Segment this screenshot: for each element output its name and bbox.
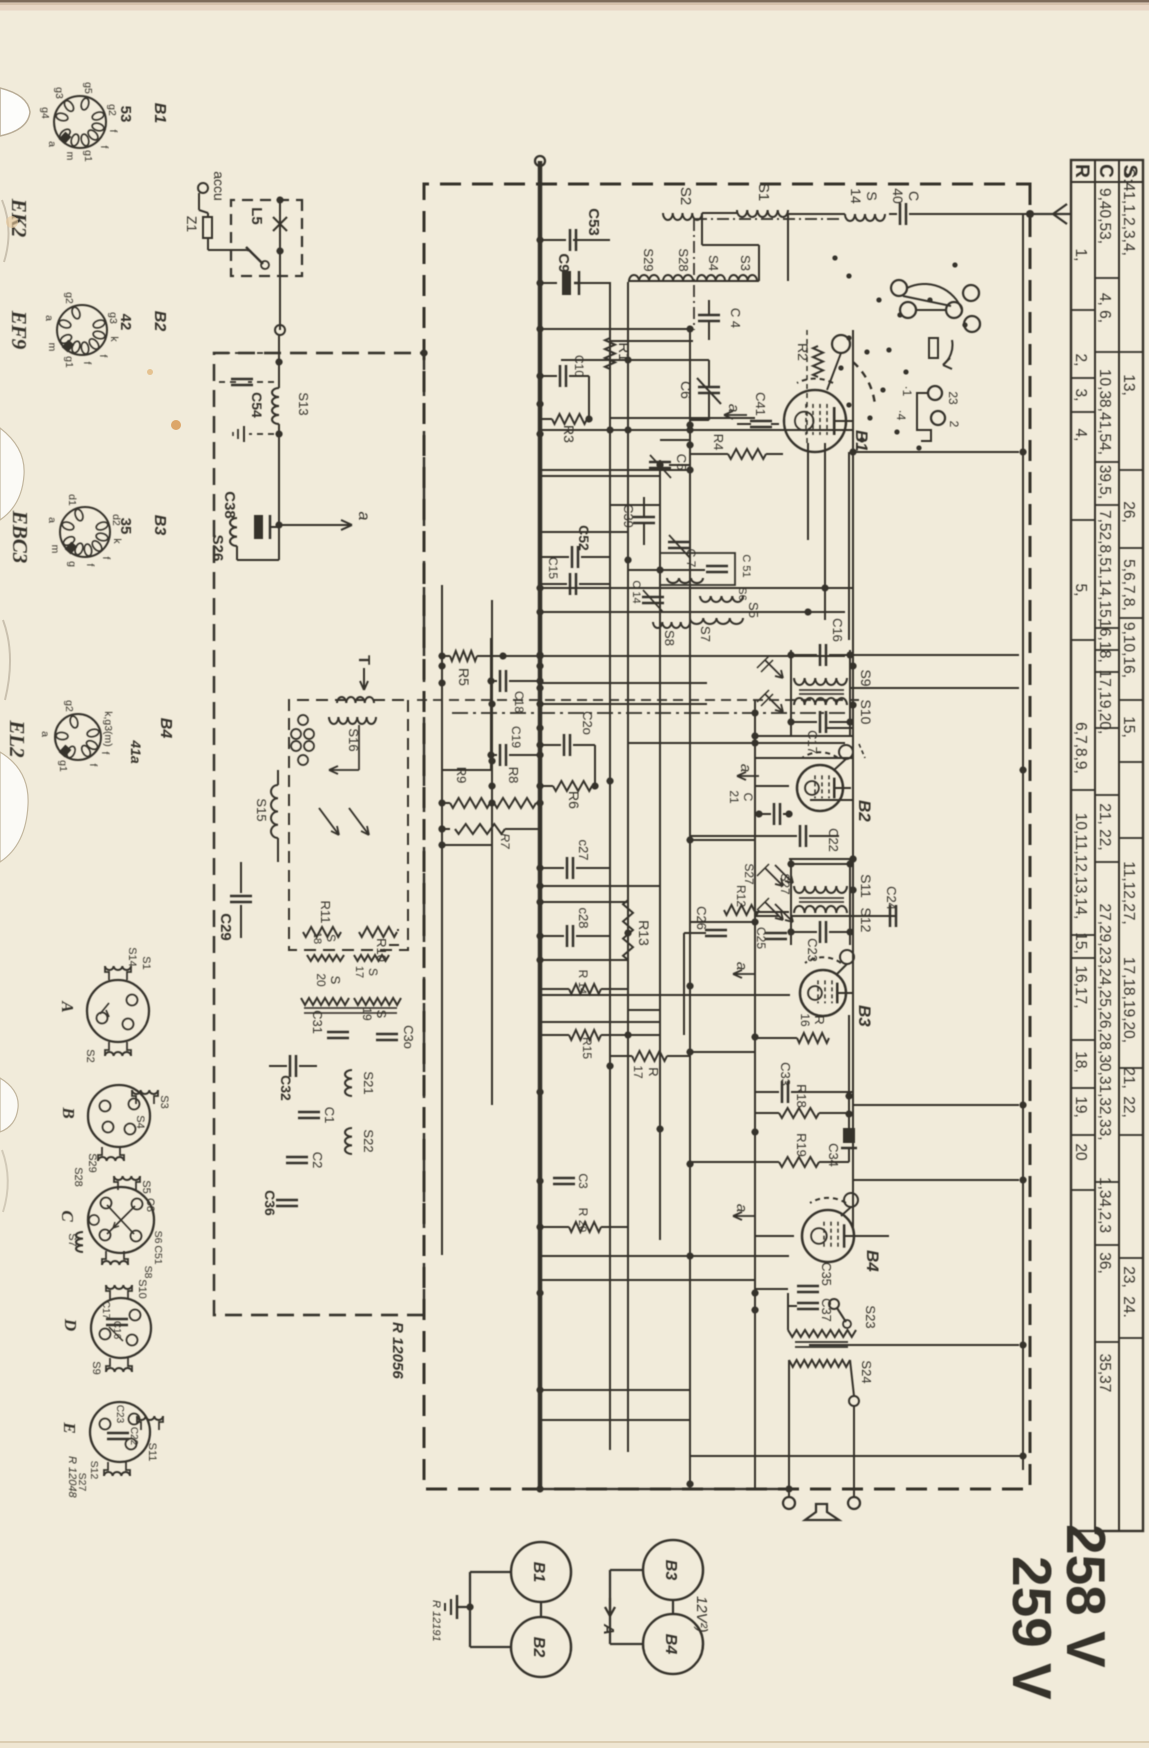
resistor R7 xyxy=(442,828,450,830)
wire net22 xyxy=(690,1051,755,1053)
wire net6 xyxy=(660,439,690,441)
wire net5 xyxy=(540,429,853,431)
oscillator dashed sub-box xyxy=(289,700,408,950)
capacitor C3 xyxy=(553,1177,575,1180)
capacitor C25 xyxy=(765,932,787,935)
capacitor C7 xyxy=(668,541,690,544)
coil S28 xyxy=(663,275,693,281)
wire v16 xyxy=(809,1091,853,1093)
capacitor C2 xyxy=(286,1156,308,1159)
antenna xyxy=(1030,204,1071,224)
wire net3 xyxy=(561,359,628,361)
coil S8 xyxy=(653,622,690,628)
rail anode b1 xyxy=(689,330,691,1484)
wire net19 xyxy=(540,901,628,903)
IFT1 core xyxy=(799,689,844,691)
paper tear left 3 xyxy=(0,752,28,862)
wire net1 xyxy=(540,328,690,330)
capacitor C53 xyxy=(540,239,566,241)
avc dash line xyxy=(449,712,845,714)
coil-unit dashed border xyxy=(214,353,424,1315)
output transformer S23 xyxy=(788,1330,856,1337)
capacitor C10 xyxy=(540,375,557,377)
capacitor C41 xyxy=(750,420,772,423)
wire v7 xyxy=(808,611,825,613)
antenna feed wire xyxy=(909,213,1030,215)
page curl mark 1 xyxy=(2,200,9,262)
bandswitch contact c xyxy=(946,302,962,318)
wire S14 to S1 xyxy=(788,213,845,215)
capacitor C26 xyxy=(705,929,727,932)
rail grid2 xyxy=(627,282,629,1452)
resistor R4 xyxy=(728,449,766,459)
coil S14 xyxy=(845,214,885,221)
coil S16 xyxy=(329,717,376,724)
coil S21 xyxy=(345,1070,352,1096)
grid cap B2 xyxy=(839,745,853,759)
coil S7 xyxy=(690,618,743,624)
osc wires xyxy=(289,769,359,771)
resistor R8 R9 xyxy=(536,802,540,804)
wire net26 xyxy=(690,1455,1023,1457)
stain speck 3 xyxy=(6,216,18,228)
IFT2 bottom rail xyxy=(790,858,792,945)
socket E xyxy=(90,1402,150,1462)
lamp switch xyxy=(246,247,263,264)
resistor R20 xyxy=(569,1222,601,1232)
capacitor C27 xyxy=(540,867,564,869)
page top edge line xyxy=(0,0,1149,3)
wire v17 xyxy=(853,1104,1019,1106)
wire v8 xyxy=(849,654,1019,656)
capacitor C35 xyxy=(797,1285,819,1288)
output transformer S24 xyxy=(789,1360,850,1367)
capacitor C22 xyxy=(809,835,839,837)
capacitor C20 xyxy=(540,744,561,746)
wire net4 xyxy=(610,417,755,419)
bandswitch arm 1 xyxy=(907,284,962,310)
page curl mark 3 xyxy=(2,1150,8,1212)
heater arrow A xyxy=(605,1598,615,1616)
ground symbol heater xyxy=(457,1606,470,1608)
heater bracket B1B2 xyxy=(470,1571,511,1573)
speaker terminal bottom xyxy=(783,1497,795,1509)
tube base EF9 xyxy=(57,305,107,355)
osc contacts xyxy=(304,729,314,739)
junction dots on rails xyxy=(438,662,445,669)
tube B2 xyxy=(797,765,843,811)
capacitor C37 xyxy=(797,1302,819,1305)
box C51 S6 xyxy=(660,553,735,585)
wire S24 bottom lead xyxy=(788,1360,790,1496)
coil S3 xyxy=(729,275,757,281)
heater B1B2 link xyxy=(540,1602,542,1617)
IFT1 tune arrows xyxy=(765,660,783,678)
coil S13 xyxy=(278,335,280,388)
heater B3B4 link xyxy=(672,1600,674,1614)
wire S24 top lead xyxy=(850,1360,854,1396)
wire net29 xyxy=(540,994,790,996)
wire v25 xyxy=(442,844,492,846)
capacitor C40 xyxy=(905,203,908,225)
coil S11 xyxy=(794,886,847,893)
wire net27 xyxy=(755,735,853,737)
resistor R2 xyxy=(813,346,823,377)
shield dash line xyxy=(411,699,859,701)
switch contact 23 xyxy=(928,386,942,400)
chassis bus wire xyxy=(538,161,543,1489)
main chassis dashed border xyxy=(424,184,1030,1489)
capacitor C28 xyxy=(540,935,564,937)
trimmer C6 xyxy=(698,386,720,389)
table column dividers xyxy=(1119,351,1143,353)
paper tear left 1 xyxy=(0,88,30,136)
wire v4 xyxy=(669,464,690,466)
capacitor C15 xyxy=(540,583,567,585)
junction dots on bus xyxy=(536,236,543,243)
wire net14 xyxy=(540,682,707,684)
rail grid caps xyxy=(852,330,854,1230)
heater tube B3 circle xyxy=(643,1540,703,1600)
wire net20 xyxy=(540,959,628,961)
resistor R15 xyxy=(569,1030,601,1040)
bandswitch dashed arc xyxy=(853,362,875,405)
wire v26 xyxy=(540,1488,789,1490)
wire v23 xyxy=(809,1344,1019,1346)
wire net15 xyxy=(540,703,707,705)
bandswitch contact a xyxy=(891,280,907,296)
socket B xyxy=(88,1085,150,1147)
coil S9 xyxy=(794,678,847,685)
osc arm 1 xyxy=(329,766,359,774)
tube base EL2 xyxy=(55,714,101,760)
coil S6 xyxy=(667,578,703,583)
socket D xyxy=(91,1298,151,1358)
wire net28 xyxy=(690,839,755,841)
switch S23 contact xyxy=(829,1299,839,1309)
bandswitch contact e xyxy=(964,316,980,332)
coil S5 xyxy=(700,596,743,602)
speaker terminal top xyxy=(848,1497,860,1509)
tube B4 xyxy=(802,1210,854,1262)
wire net16 xyxy=(628,742,845,744)
tube B3 xyxy=(800,970,846,1016)
tube base EK2 xyxy=(54,96,106,148)
sawtooth S18 xyxy=(307,955,344,961)
bandswitch rotor xyxy=(929,338,938,358)
coil S26 xyxy=(230,518,237,546)
rail avc xyxy=(491,600,493,1105)
rail b2 xyxy=(659,460,661,1240)
wire v3 xyxy=(610,429,690,431)
IFT2 top rail xyxy=(849,858,851,945)
wire v10 xyxy=(825,727,853,729)
capacitor C17 xyxy=(829,721,850,723)
bandswitch arm 2 xyxy=(903,296,951,306)
wire v11 xyxy=(755,785,789,787)
wire net10 xyxy=(540,531,628,533)
coil S1 xyxy=(737,210,788,217)
wire net25 xyxy=(540,1419,690,1421)
resistor R19 xyxy=(819,1161,849,1163)
wire v19 xyxy=(853,1179,1019,1181)
coil S15 xyxy=(271,785,278,838)
capacitor C14 xyxy=(642,596,664,599)
grid cap B4 xyxy=(844,1193,858,1207)
wire v24 xyxy=(442,769,492,771)
wire net33 xyxy=(755,911,789,913)
coil S22 xyxy=(345,1128,352,1154)
stain speck 1 xyxy=(171,420,181,430)
heater tube B1 circle xyxy=(511,1542,571,1602)
L5 lamp dashed box xyxy=(231,200,302,276)
coil S12 xyxy=(794,906,847,913)
rail g-return xyxy=(441,585,443,1255)
pink top tint xyxy=(0,3,1149,11)
wire net24 xyxy=(540,1389,690,1391)
capacitor C24 xyxy=(755,915,779,917)
resistor R11 xyxy=(303,927,341,937)
capacitor C38 xyxy=(254,515,263,539)
wire net30 xyxy=(540,1021,660,1023)
resistor R5 xyxy=(477,655,845,657)
resistor R17 xyxy=(632,1051,667,1061)
capacitor C23 xyxy=(829,931,850,933)
paper tear left 2 xyxy=(0,428,24,520)
resistor R13 xyxy=(623,900,633,960)
socket C xyxy=(88,1187,154,1253)
wire net9 xyxy=(610,504,660,506)
capacitor C4 xyxy=(698,314,720,317)
rail screen xyxy=(609,282,611,1450)
resistor R6 xyxy=(540,785,553,787)
coil S29 xyxy=(629,275,659,281)
capacitor C31 xyxy=(327,1031,349,1034)
rail ht top xyxy=(1022,215,1024,1470)
capacitor C9 xyxy=(540,282,557,284)
wire v1 xyxy=(573,239,610,241)
wire L5 feed xyxy=(279,198,281,330)
capacitor C34 xyxy=(843,1128,855,1143)
tube B1 xyxy=(784,390,846,452)
speaker xyxy=(805,1504,839,1520)
wire v2 xyxy=(628,359,690,361)
wire net7 xyxy=(540,469,690,471)
resistor R16 xyxy=(797,1033,829,1043)
capacitor C33 xyxy=(755,1091,779,1093)
IFT1 bottom rail xyxy=(790,650,792,737)
sawtooth S17 xyxy=(354,955,389,961)
wire net35 xyxy=(862,1235,889,1237)
capacitor C16 xyxy=(829,654,850,656)
wire top coils xyxy=(787,213,789,281)
coil S2 xyxy=(663,213,702,220)
fuse Z1 xyxy=(203,217,212,238)
stain speck 2 xyxy=(147,369,153,375)
sawtooth S19 xyxy=(354,998,401,1005)
wire net31 xyxy=(540,1279,755,1281)
IFT2 core xyxy=(799,897,844,899)
capacitor C29 xyxy=(240,862,242,893)
capacitor C51 xyxy=(706,565,728,568)
resistor R18 xyxy=(819,1112,849,1114)
wire v9 xyxy=(849,687,1019,689)
tube base EBC3 xyxy=(60,507,110,557)
IFT1 top rail xyxy=(849,650,851,737)
wire net34 xyxy=(755,1288,788,1290)
switch bracket xyxy=(917,393,931,441)
capacitor C39 xyxy=(633,516,655,519)
wire net18 xyxy=(789,858,853,860)
wire v13 xyxy=(540,885,660,887)
switch position dots xyxy=(832,255,837,260)
capacitor C54 xyxy=(214,352,274,354)
wire v20 xyxy=(755,1235,794,1237)
wire sec chain xyxy=(628,280,759,282)
wire v14 xyxy=(690,921,755,923)
IFT2 left wire xyxy=(791,863,850,865)
wire net13 xyxy=(540,611,845,613)
bandswitch wire f xyxy=(916,309,946,311)
capacitor C32 xyxy=(299,1065,317,1067)
wire c18 c19 bar xyxy=(490,638,492,770)
wire net17 xyxy=(810,799,853,801)
heater bracket B3B4 xyxy=(610,1569,643,1571)
grid cap B3 xyxy=(840,950,854,964)
osc arm 3 xyxy=(319,808,339,835)
coil S4 xyxy=(697,275,725,281)
wire B1 cathode to top xyxy=(853,451,1019,453)
heater tube B4 circle xyxy=(643,1614,703,1674)
sawtooth S20 xyxy=(301,998,349,1005)
wire net2 xyxy=(610,340,693,342)
rail ht2 xyxy=(754,700,756,1488)
capacitor C30 xyxy=(376,1033,398,1036)
capacitor C18 xyxy=(509,680,540,682)
wire net23 xyxy=(540,1255,789,1257)
IFT2 tune arrows xyxy=(775,865,793,883)
page curl mark 2 xyxy=(3,620,10,700)
accu terminal xyxy=(198,183,208,193)
wire S23 bottom xyxy=(787,1293,789,1330)
capacitor C52 xyxy=(540,556,569,558)
resistor R1 xyxy=(605,338,615,369)
capacitor C36 xyxy=(276,1199,298,1202)
wire v22 xyxy=(788,1305,797,1307)
capacitor C19 xyxy=(509,754,540,756)
wire B1 leads xyxy=(807,443,809,540)
junction dots net xyxy=(686,325,693,332)
wire net8 xyxy=(540,475,660,477)
wire net32 xyxy=(755,757,853,759)
wire v6 xyxy=(825,587,853,589)
parts table frame xyxy=(1071,160,1143,1531)
heater tube B2 circle xyxy=(511,1617,571,1677)
capacitor C1 xyxy=(298,1111,320,1114)
core osc xyxy=(304,1007,397,1009)
wire net12 xyxy=(540,587,853,589)
resistor R14 xyxy=(569,984,601,994)
osc arm 2 xyxy=(349,808,369,835)
grid cap B1 xyxy=(832,335,850,353)
wire net11 xyxy=(628,569,705,571)
bandswitch contact b xyxy=(900,302,916,318)
coil S10 xyxy=(794,698,847,705)
page bottom edge line xyxy=(0,1741,1149,1743)
switch contact 2 xyxy=(931,411,945,425)
paper tear left 4 xyxy=(0,1078,18,1132)
resistor R10 xyxy=(359,927,397,937)
wire v12 xyxy=(690,835,755,837)
wire S2 top xyxy=(702,212,737,214)
socket A xyxy=(87,980,149,1042)
bandswitch contact d xyxy=(963,285,979,301)
resistor R3 xyxy=(552,414,587,424)
output transformer core xyxy=(795,1341,848,1343)
IFT2 tune arrows xyxy=(765,868,783,886)
wire net21 xyxy=(628,1009,660,1011)
capacitor C5 xyxy=(649,461,671,464)
capacitor C21 xyxy=(779,803,782,825)
resistor R12 xyxy=(724,905,759,915)
